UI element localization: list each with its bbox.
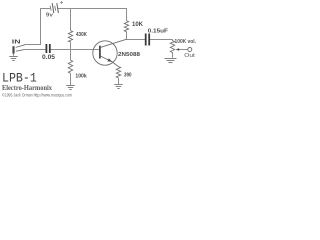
svg-text:100K vol.: 100K vol. <box>175 39 197 45</box>
svg-text:100k: 100k <box>75 73 87 79</box>
svg-text:2N5088: 2N5088 <box>118 52 141 58</box>
svg-text:390: 390 <box>124 73 132 79</box>
svg-text:0.15uF: 0.15uF <box>148 28 169 34</box>
svg-text:430K: 430K <box>76 32 87 38</box>
svg-text:0.05: 0.05 <box>42 55 56 61</box>
svg-text:9v: 9v <box>46 13 53 19</box>
svg-text:IN: IN <box>12 40 21 46</box>
svg-text:Out: Out <box>184 53 195 59</box>
svg-text:10K: 10K <box>132 22 144 28</box>
svg-text:LPB-1: LPB-1 <box>2 70 37 85</box>
svg-text:©1995 Jack Orman http://www.m: ©1995 Jack Orman http://www.muzique.com <box>2 93 72 98</box>
svg-text:Electro-Harmonix: Electro-Harmonix <box>2 85 53 92</box>
